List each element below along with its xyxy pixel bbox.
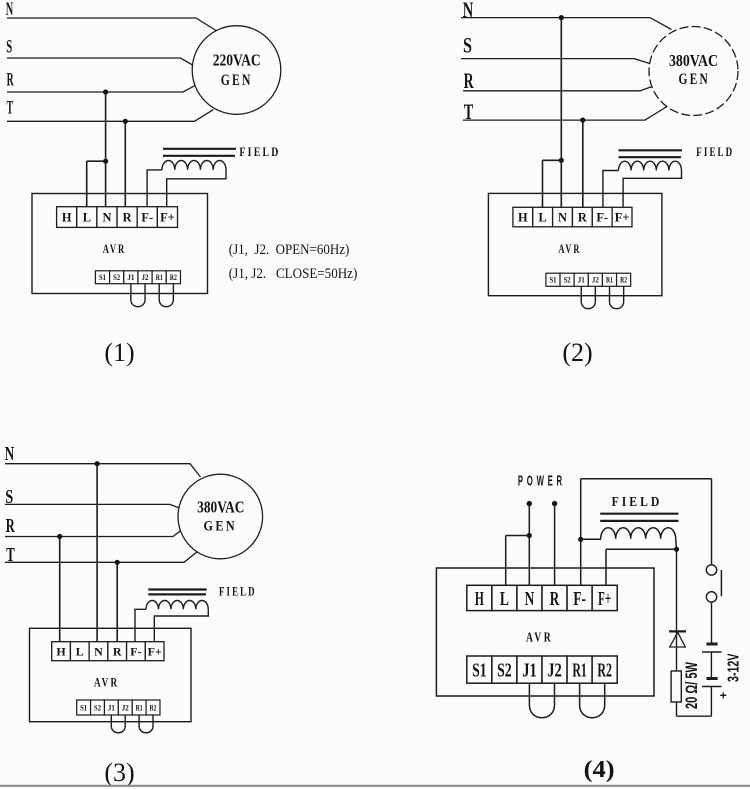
AVR U1 box (diagram 1) — [32, 194, 208, 294]
terminal F- (diagram 3) — [127, 642, 146, 661]
wire field coil right drop (4) — [675, 539, 678, 550]
wire R phase line to generator (2) — [463, 87, 652, 91]
svg-text:L: L — [76, 645, 84, 659]
power input node left (diagram 4) — [527, 501, 532, 506]
wire down to terminal L (4) — [505, 536, 507, 586]
svg-text:GEN: GEN — [221, 72, 253, 89]
svg-text:POWER: POWER — [518, 473, 566, 489]
battery BT1 plate short 2 — [706, 677, 717, 680]
terminal R1 (diagram 2) — [602, 273, 616, 286]
wire from N line down — [560, 18, 562, 161]
junction on N line (diagram 3) — [95, 461, 100, 466]
svg-text:S1: S1 — [549, 274, 556, 284]
terminal F+ (diagram 4) — [592, 585, 617, 610]
jumper J1-J2 (diagram 1) — [131, 284, 145, 307]
terminal H (diagram 3) — [52, 642, 71, 661]
svg-text:J2: J2 — [142, 272, 149, 282]
terminal R (diagram 2) — [572, 207, 592, 227]
field stator bar 2 (diagram 2) — [619, 156, 682, 158]
wire T phase line to generator — [7, 110, 213, 122]
wire down to terminal L — [86, 161, 88, 207]
terminal H (diagram 2) — [513, 207, 533, 227]
field coil L2 (diagram 2) — [619, 161, 682, 170]
wire R phase line to generator — [7, 86, 195, 92]
terminal J2 (diagram 3) — [118, 700, 132, 715]
svg-text:GEN: GEN — [678, 71, 710, 88]
wire S phase line to generator (3) — [5, 504, 179, 508]
svg-text:S: S — [6, 38, 12, 58]
svg-text:R: R — [550, 589, 560, 610]
field stator bar 1 (diagram 4) — [600, 513, 678, 515]
svg-text:S: S — [463, 32, 472, 57]
terminal S2 (diagram 2) — [560, 273, 574, 286]
svg-text:(3): (3) — [104, 758, 134, 787]
wire bottom rail to battery (4) — [677, 715, 712, 717]
svg-text:N: N — [558, 210, 567, 224]
jumper R1-R2 (diagram 4) — [580, 683, 605, 718]
terminal L (diagram 1) — [77, 207, 97, 228]
svg-text:L: L — [500, 589, 509, 610]
battery BT1 plate short 1 — [706, 643, 717, 646]
wire jog to L terminal (2) — [543, 159, 562, 161]
terminal H (diagram 1) — [57, 207, 77, 228]
svg-text:F+: F+ — [160, 211, 175, 225]
terminal F- (diagram 4) — [567, 585, 592, 610]
svg-text:R1: R1 — [136, 703, 143, 713]
svg-text:S1: S1 — [99, 272, 106, 282]
svg-text:220VAC: 220VAC — [213, 50, 261, 69]
wire switch to battery top (4) — [711, 602, 713, 644]
field coil L3 (diagram 3) — [146, 601, 208, 610]
svg-text:S1: S1 — [80, 703, 87, 713]
wire resistor to bottom rail (4) — [676, 702, 678, 716]
svg-text:F-: F- — [596, 210, 608, 224]
wire from T line to terminal R (3) — [116, 562, 118, 642]
wire R phase line to generator (3) — [5, 531, 181, 537]
svg-text:FIELD: FIELD — [219, 585, 257, 599]
wire junction down through diode D1 to resistor (4) — [676, 549, 678, 671]
svg-text:R: R — [6, 515, 15, 537]
svg-text:380VAC: 380VAC — [669, 51, 718, 70]
svg-text:3-12V: 3-12V — [725, 653, 742, 682]
svg-text:(J1, J2. OPEN=60Hz): (J1, J2. OPEN=60Hz) — [229, 242, 349, 258]
svg-text:F+: F+ — [598, 589, 611, 610]
svg-text:R1: R1 — [156, 272, 163, 282]
terminal L (diagram 2) — [533, 207, 553, 227]
wire from T line to terminal R (2) — [582, 120, 584, 207]
wire down to terminal L (2) — [542, 160, 544, 207]
terminal H (diagram 4) — [467, 585, 492, 610]
svg-text:(1): (1) — [104, 338, 134, 367]
svg-text:R: R — [7, 71, 14, 91]
svg-text:FIELD: FIELD — [696, 144, 734, 159]
generator G1 220VAC GEN — [192, 26, 281, 115]
wire from R line to terminal H (3) — [59, 537, 61, 643]
svg-text:J1: J1 — [108, 703, 115, 713]
terminal L (diagram 4) — [492, 585, 517, 610]
wire down to terminal N — [105, 161, 107, 207]
svg-text:R1: R1 — [606, 274, 613, 284]
junction node (diagram 2) — [559, 158, 564, 163]
terminal R (diagram 3) — [108, 642, 127, 661]
svg-text:S2: S2 — [113, 272, 120, 282]
terminal F- (diagram 1) — [137, 207, 157, 228]
svg-text:H: H — [62, 211, 72, 225]
terminal R1 (diagram 3) — [132, 700, 146, 715]
jumper J1-J2 (diagram 4) — [529, 683, 554, 718]
terminal F+ (diagram 3) — [145, 642, 164, 661]
field stator bar 2 (diagram 4) — [600, 520, 678, 522]
terminal S2 (diagram 1) — [110, 271, 124, 284]
svg-text:N: N — [525, 589, 535, 610]
field stator bar 2 (diagram 1) — [163, 155, 235, 157]
field stator bar 1 (diagram 1) — [163, 148, 236, 150]
power input node right (diagram 4) — [552, 501, 557, 506]
diode D1 triangle — [670, 632, 686, 647]
svg-text:20 Ω/ 5W: 20 Ω/ 5W — [682, 661, 701, 709]
terminal S1 (diagram 4) — [467, 656, 492, 683]
wire from R line down to node — [105, 92, 107, 161]
svg-text:H: H — [475, 589, 484, 610]
diode D1 cathode bar — [669, 630, 686, 632]
terminal R2 (diagram 1) — [166, 271, 180, 284]
terminal J2 (diagram 4) — [542, 656, 567, 683]
page footer rule — [0, 785, 750, 787]
svg-text:J1: J1 — [578, 274, 585, 284]
wire jog to terminal L (4) — [506, 535, 530, 537]
AVR U4 box (diagram 4) — [436, 568, 654, 696]
svg-text:J2: J2 — [122, 703, 129, 713]
svg-text:J2: J2 — [592, 274, 599, 284]
svg-text:R2: R2 — [170, 272, 177, 282]
junction on N line (diagram 2) — [559, 15, 564, 20]
svg-text:J1: J1 — [127, 272, 134, 282]
svg-text:AVR: AVR — [94, 676, 119, 690]
generator G2 380VAC GEN — [649, 27, 738, 116]
junction on T line (diagram 2) — [580, 118, 585, 123]
svg-text:N: N — [463, 0, 474, 22]
svg-text:T: T — [7, 99, 14, 119]
terminal R1 (diagram 4) — [567, 656, 592, 683]
wire power left to terminal N (4) — [528, 504, 530, 586]
svg-text:S2: S2 — [94, 703, 101, 713]
svg-text:F+: F+ — [615, 210, 630, 224]
svg-text:R: R — [464, 68, 475, 93]
svg-text:H: H — [56, 645, 66, 659]
terminal J2 (diagram 2) — [588, 273, 602, 286]
svg-text:(2): (2) — [562, 338, 592, 367]
wire field coil left to terminal F- — [147, 170, 162, 207]
AVR U2 box (diagram 2) — [488, 193, 662, 295]
terminal J2 (diagram 1) — [138, 271, 152, 284]
svg-text:L: L — [83, 211, 91, 225]
svg-text:N: N — [94, 645, 103, 659]
svg-text:H: H — [518, 210, 528, 224]
svg-text:F-: F- — [141, 211, 153, 225]
terminal J1 (diagram 3) — [104, 700, 118, 715]
wire from T line down to terminal R — [124, 121, 126, 207]
terminal R (diagram 4) — [542, 585, 567, 610]
svg-text:R1: R1 — [572, 660, 587, 682]
wire power right to terminal R (4) — [554, 504, 556, 586]
resistor R1 20ohm 5W body — [671, 671, 681, 702]
terminal S2 (diagram 3) — [91, 700, 105, 715]
terminal F- (diagram 2) — [592, 207, 612, 227]
svg-text:FIELD: FIELD — [239, 144, 280, 159]
svg-text:R: R — [123, 211, 133, 225]
generator G3 380VAC GEN — [178, 474, 263, 559]
switch S1 blade — [720, 570, 722, 596]
junction on R line (diagram 1) — [103, 89, 108, 94]
terminal R2 (diagram 3) — [146, 700, 160, 715]
terminal R1 (diagram 1) — [152, 271, 166, 284]
terminal S1 (diagram 3) — [77, 700, 91, 715]
junction node (diagram 1) — [103, 159, 108, 164]
field stator bar 1 (diagram 2) — [619, 149, 683, 151]
battery BT1 inner link — [710, 653, 712, 679]
terminal N (diagram 1) — [97, 207, 117, 228]
svg-text:FIELD: FIELD — [612, 494, 663, 509]
junction node on power wire (4) — [527, 533, 532, 538]
svg-text:N: N — [6, 0, 14, 20]
terminal N (diagram 3) — [89, 642, 108, 661]
wire field coil right to F+ (2) — [623, 171, 681, 208]
wire T phase line to generator (3) — [5, 552, 198, 563]
jumper R1-R2 (diagram 1) — [159, 284, 173, 307]
jumper J1-J2 (diagram 2) — [581, 286, 595, 308]
junction on T line (diagram 1) — [123, 119, 128, 124]
wire down to terminal N (2) — [560, 160, 562, 207]
wire F- riser (4) — [580, 479, 582, 586]
terminal J1 (diagram 1) — [124, 271, 138, 284]
wire S phase line to generator (2) — [461, 59, 650, 64]
field coil L4 (diagram 4) — [601, 528, 676, 539]
svg-text:(4): (4) — [584, 757, 615, 783]
field coil L1 (diagram 1) — [162, 161, 226, 170]
field stator bar 2 (diagram 3) — [148, 593, 206, 595]
junction field coil right / diode branch (4) — [674, 547, 679, 552]
svg-text:R: R — [113, 645, 122, 659]
field stator bar 1 (diagram 3) — [148, 588, 206, 590]
svg-text:R2: R2 — [597, 660, 612, 682]
battery BT1 plate long 1 — [702, 651, 722, 653]
terminal S2 (diagram 4) — [492, 656, 517, 683]
svg-text:F+: F+ — [148, 645, 162, 659]
wire jog to L terminal — [87, 160, 106, 162]
wire field coil right to F+ (3) — [154, 609, 208, 641]
wire rail down to switch S1 (4) — [711, 479, 713, 565]
terminal F+ (diagram 1) — [157, 207, 177, 228]
terminal L (diagram 3) — [70, 642, 89, 661]
svg-text:AVR: AVR — [526, 630, 553, 645]
wire from N line to terminal N (3) — [96, 464, 98, 642]
wire top rail F- to switch (4) — [581, 478, 712, 480]
wire N phase line to generator (2) — [461, 18, 672, 30]
terminal S1 (diagram 2) — [546, 273, 560, 286]
wire S phase line to generator — [7, 58, 193, 65]
wire to F+ terminal (4) — [606, 548, 677, 550]
junction on T line (diagram 3) — [115, 560, 120, 565]
terminal R (diagram 1) — [117, 207, 137, 228]
terminal R2 (diagram 4) — [592, 656, 617, 683]
wire down to terminal F+ (4) — [605, 549, 607, 585]
svg-text:J2: J2 — [547, 660, 562, 682]
svg-text:(J1, J2. CLOSE=50Hz): (J1, J2. CLOSE=50Hz) — [229, 266, 357, 282]
wire N phase line to generator — [7, 18, 216, 31]
svg-text:F-: F- — [573, 589, 586, 610]
svg-text:GEN: GEN — [204, 519, 238, 535]
terminal F+ (diagram 2) — [612, 207, 632, 227]
terminal J1 (diagram 4) — [517, 656, 542, 683]
junction on R line (diagram 3) — [57, 534, 62, 539]
svg-text:L: L — [539, 210, 547, 224]
svg-text:S2: S2 — [564, 274, 571, 284]
svg-text:N: N — [5, 443, 15, 465]
wire field coil left to F- (3) — [135, 609, 146, 641]
svg-text:S2: S2 — [497, 660, 512, 682]
svg-text:R2: R2 — [620, 274, 627, 284]
svg-text:+: + — [720, 688, 727, 702]
wire field coil left to F- (2) — [603, 171, 619, 208]
svg-text:N: N — [102, 211, 111, 225]
junction F- node with field coil (4) — [578, 537, 583, 542]
terminal R2 (diagram 2) — [617, 273, 631, 286]
terminal J1 (diagram 2) — [574, 273, 588, 286]
terminal N (diagram 2) — [553, 207, 573, 227]
svg-text:380VAC: 380VAC — [197, 497, 244, 516]
terminal N (diagram 4) — [517, 585, 542, 610]
svg-text:F-: F- — [130, 645, 141, 659]
jumper J1-J2 (diagram 3) — [111, 715, 125, 733]
svg-text:R2: R2 — [150, 703, 157, 713]
svg-text:R: R — [578, 210, 588, 224]
AVR U3 box (diagram 3) — [30, 628, 192, 721]
terminal S1 (diagram 1) — [95, 271, 109, 284]
wire battery bottom to rail (4) — [710, 687, 712, 716]
wire T phase line to generator (2) — [463, 107, 667, 121]
svg-text:S1: S1 — [472, 660, 487, 682]
svg-text:J1: J1 — [522, 660, 537, 682]
wire F- node to field coil left (4) — [581, 538, 601, 540]
wire field coil right to terminal F+ — [167, 170, 226, 207]
wire N phase line to generator (3) — [5, 464, 201, 477]
svg-text:AVR: AVR — [103, 241, 126, 256]
jumper R1-R2 (diagram 3) — [139, 715, 153, 733]
battery BT1 plate long 2 — [702, 686, 722, 688]
jumper R1-R2 (diagram 2) — [610, 286, 624, 308]
svg-text:AVR: AVR — [559, 241, 582, 256]
